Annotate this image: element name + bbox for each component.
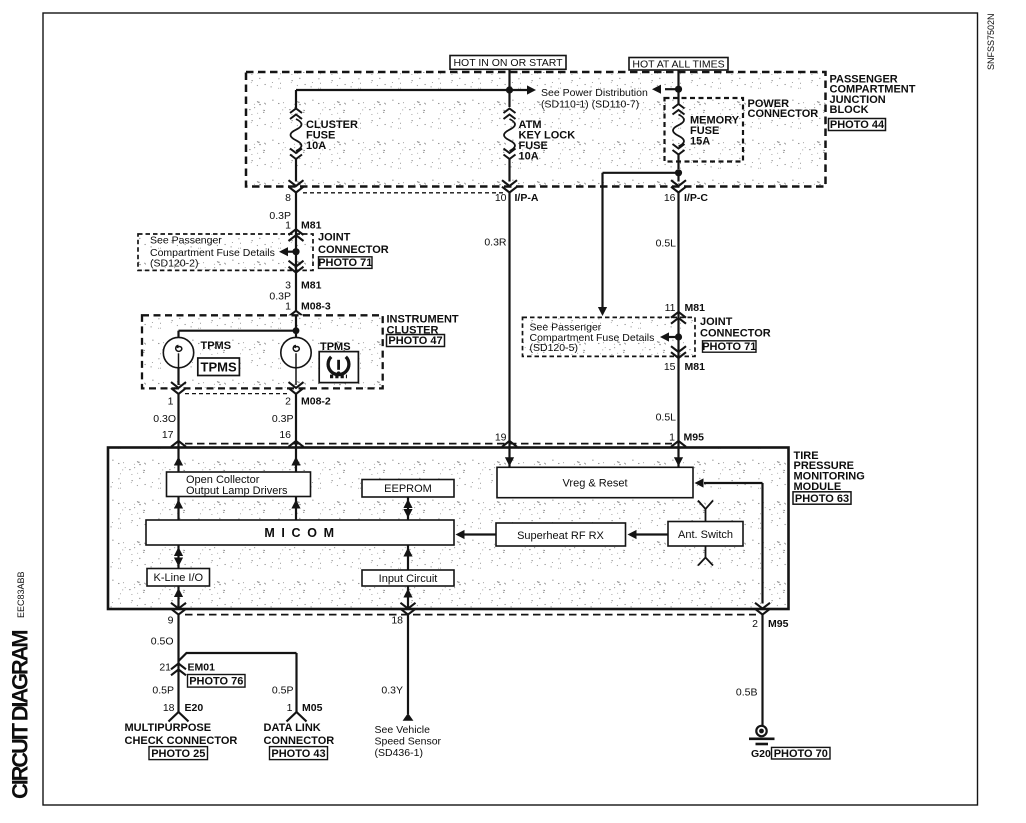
svg-text:0.3R: 0.3R (484, 237, 507, 249)
pin 16 I/P-C (671, 180, 686, 192)
svg-text:Speed Sensor: Speed Sensor (375, 736, 442, 748)
wire Superheat to MICOM (464, 533, 496, 535)
block Input Circuit (362, 570, 454, 586)
wire ground feed to Vreg (704, 482, 763, 484)
svg-text:16: 16 (279, 429, 291, 441)
wire MICOM-K-Line (bidirectional) (177, 545, 179, 569)
wire 0.5O (pin 9 to EM01) (177, 615, 179, 712)
wire 0.3P (to pin 16) (295, 394, 297, 447)
svg-text:M81: M81 (685, 302, 706, 314)
wire pin1 to Vreg (677, 448, 679, 467)
svg-text:I/P-A: I/P-A (515, 192, 539, 204)
node power-distribution junction (right) (675, 86, 682, 93)
passenger compartment junction block (dashed box) (246, 72, 826, 187)
wire lamp drivers to MICOM (left) (177, 497, 179, 521)
ground G20 (756, 726, 766, 736)
svg-text:PHOTO 70: PHOTO 70 (774, 748, 828, 760)
wire pin17 to lamp drivers (177, 448, 179, 472)
svg-text:1: 1 (669, 432, 675, 444)
label PHOTO 70 (772, 747, 831, 759)
wire EEPROM-MICOM (bidirectional) (407, 497, 409, 520)
label PHOTO 76 (188, 675, 246, 688)
wire Input Circuit to MICOM (407, 545, 409, 570)
svg-text:HOT IN ON OR START: HOT IN ON OR START (453, 57, 563, 69)
svg-text:PHOTO 47: PHOTO 47 (388, 335, 442, 347)
pin 1 M08-2 (left) (171, 382, 186, 394)
wire Ant. Switch to Superheat (636, 533, 668, 535)
svg-text:1: 1 (287, 702, 293, 714)
svg-text:PHOTO 76: PHOTO 76 (189, 676, 243, 688)
wire to CLUSTER FUSE (296, 89, 510, 91)
svg-text:MULTIPURPOSE: MULTIPURPOSE (125, 722, 212, 734)
svg-text:2: 2 (752, 618, 758, 630)
svg-text:0.5P: 0.5P (152, 685, 174, 697)
svg-text:0.5O: 0.5O (151, 636, 174, 648)
svg-text:See Vehicle: See Vehicle (375, 724, 431, 736)
svg-text:18: 18 (391, 615, 403, 627)
label HOT IN ON OR START (450, 56, 566, 70)
svg-text:CONNECTOR: CONNECTOR (264, 735, 335, 747)
svg-text:EM01: EM01 (188, 662, 216, 674)
svg-text:BLOCK: BLOCK (830, 104, 869, 116)
svg-text:EEC83ABB: EEC83ABB (16, 571, 26, 618)
lamp TPMS (right indicator) (281, 337, 311, 367)
pin 2 M95 chevron (755, 603, 770, 615)
svg-text:0.3P: 0.3P (272, 413, 294, 425)
wire pin16 to lamp drivers (295, 448, 297, 472)
node M81 joint (SD120-5) (675, 333, 682, 340)
svg-text:21: 21 (159, 662, 171, 674)
node power-distribution junction (left) (506, 86, 513, 93)
svg-text:EEPROM: EEPROM (384, 483, 432, 495)
fuse MEMORY FUSE 15A (673, 104, 685, 115)
svg-text:10: 10 (495, 192, 507, 204)
wire pin 18 to Input Circuit (407, 586, 409, 608)
wire pin19 to Vreg (508, 448, 510, 467)
svg-text:M95: M95 (684, 432, 705, 444)
svg-text:K-Line I/O: K-Line I/O (154, 572, 204, 584)
wire 0.3O (177, 394, 179, 447)
svg-text:(SD120-5): (SD120-5) (530, 342, 578, 354)
antenna (lower) (698, 546, 713, 566)
svg-text:JOINT: JOINT (318, 231, 351, 243)
svg-text:Output Lamp Drivers: Output Lamp Drivers (186, 485, 288, 497)
block MICOM (146, 520, 454, 545)
svg-text:TPMS: TPMS (201, 359, 237, 374)
wire inside cluster (295, 316, 297, 338)
joint connector M81 box (SD120-2) (138, 234, 313, 270)
wire from HOT IN ON OR START (508, 69, 510, 107)
pin 18 chevron (401, 603, 416, 615)
svg-text:2: 2 (285, 396, 291, 408)
svg-text:1: 1 (168, 396, 174, 408)
svg-text:10A: 10A (306, 140, 326, 152)
svg-text:17: 17 (162, 429, 174, 441)
svg-text:9: 9 (168, 615, 174, 627)
svg-text:0.3O: 0.3O (153, 413, 176, 425)
svg-text:16: 16 (664, 192, 676, 204)
power connector (dashed box) (665, 98, 744, 162)
svg-text:PHOTO 44: PHOTO 44 (830, 119, 885, 131)
svg-text:M05: M05 (302, 702, 323, 714)
svg-text:JOINT: JOINT (700, 316, 733, 328)
block Vreg &amp; Reset (497, 467, 693, 497)
wire from HOT AT ALL TIMES (677, 70, 679, 104)
svg-text:PHOTO 71: PHOTO 71 (318, 257, 372, 269)
node memory fuse output junction (675, 169, 682, 176)
svg-text:Input Circuit: Input Circuit (379, 573, 438, 585)
svg-text:18: 18 (163, 702, 175, 714)
svg-text:19: 19 (495, 432, 507, 444)
svg-text:11: 11 (665, 302, 676, 314)
svg-text:See Passenger: See Passenger (150, 235, 222, 247)
label HOT AT ALL TIMES (629, 58, 728, 71)
svg-text:PHOTO 71: PHOTO 71 (702, 341, 756, 353)
svg-text:0.5L: 0.5L (656, 238, 677, 250)
instrument cluster (dashed box) (142, 315, 383, 388)
block EEPROM (362, 480, 454, 498)
pin 19 chevron (502, 441, 517, 453)
svg-text:0.3Y: 0.3Y (381, 685, 403, 697)
svg-text:M81: M81 (301, 220, 322, 232)
svg-text:10A: 10A (519, 151, 539, 163)
pin 17 chevron (171, 441, 186, 453)
wire lamp drivers to MICOM (right) (295, 497, 297, 521)
svg-text:0.5B: 0.5B (736, 687, 758, 699)
block Open Collector Output Lamp Drivers (167, 472, 311, 497)
svg-text:M08-2: M08-2 (301, 396, 331, 408)
antenna (upper) (698, 501, 713, 522)
fuse ATM KEY LOCK FUSE 10A (504, 109, 516, 120)
wire branch to joint connector SD120-5 (603, 172, 679, 174)
joint connector M81 box (SD120-5) (523, 317, 696, 356)
svg-text:CHECK CONNECTOR: CHECK CONNECTOR (125, 735, 238, 747)
tire pressure monitoring module (box) (108, 448, 789, 610)
svg-text:(SD120-2): (SD120-2) (150, 258, 198, 270)
pin 9 chevron (171, 603, 186, 615)
module connector dashed line (top) (185, 443, 672, 445)
fuse CLUSTER FUSE 10A (290, 109, 302, 120)
svg-text:PHOTO 63: PHOTO 63 (795, 493, 849, 505)
svg-text:M08-3: M08-3 (301, 301, 331, 313)
pin 15 M81 (671, 346, 686, 358)
wire 0.3Y (pin 18 to vehicle speed sensor) (407, 615, 409, 714)
block Ant. Switch (668, 522, 743, 547)
svg-text:DATA LINK: DATA LINK (264, 722, 321, 734)
pin 3 M81 (289, 261, 304, 273)
connector row dashed line I/P (303, 192, 503, 194)
label box TPMS (198, 358, 240, 376)
icon TPMS warning lamp (319, 352, 358, 383)
connector EM01 (171, 664, 186, 676)
svg-text:M95: M95 (768, 618, 789, 630)
svg-text:G20: G20 (751, 748, 771, 760)
svg-text:SNFSS7502N: SNFSS7502N (986, 13, 996, 70)
svg-text:CIRCUIT DIAGRAM: CIRCUIT DIAGRAM (8, 631, 33, 799)
wire 0.3R (pin 10 to module pin 19) (508, 193, 510, 447)
svg-text:15A: 15A (690, 136, 710, 148)
svg-text:15: 15 (664, 361, 676, 373)
block Superheat RF RX (496, 523, 626, 546)
svg-text:M81: M81 (685, 361, 706, 373)
svg-text:(SD436-1): (SD436-1) (375, 747, 423, 759)
svg-text:8: 8 (285, 192, 291, 204)
svg-text:I/P-C: I/P-C (684, 192, 708, 204)
svg-text:CONNECTOR: CONNECTOR (748, 108, 819, 120)
svg-text:PHOTO 43: PHOTO 43 (271, 748, 325, 760)
node M81 joint (SD120-2) (292, 248, 299, 255)
svg-text:E20: E20 (185, 702, 204, 714)
svg-text:See Power Distribution: See Power Distribution (541, 87, 648, 99)
svg-text:1: 1 (285, 220, 291, 232)
svg-text:Ant. Switch: Ant. Switch (678, 529, 733, 541)
wire branch to data link connector (179, 653, 297, 712)
wire 0.3P (pin 8 to M81) (295, 193, 297, 311)
pin 16 chevron (289, 441, 304, 453)
svg-text:0.5P: 0.5P (272, 685, 294, 697)
pin 8 (junction block) (289, 180, 304, 192)
lamp TPMS (left indicator) (163, 337, 193, 367)
svg-text:0.5L: 0.5L (656, 412, 677, 424)
svg-text:PHOTO 25: PHOTO 25 (151, 748, 205, 760)
svg-text:CONNECTOR: CONNECTOR (318, 244, 389, 256)
wire 0.5L (pin 16 to M81) (677, 193, 679, 447)
svg-text:M81: M81 (301, 280, 322, 292)
svg-text:Superheat RF RX: Superheat RF RX (517, 530, 604, 542)
svg-text:Vreg & Reset: Vreg & Reset (562, 478, 627, 490)
pin 1 chevron (671, 441, 686, 453)
svg-text:(SD110-1) (SD110-7): (SD110-1) (SD110-7) (541, 98, 639, 110)
wire 0.5B (pin 2 to ground) (761, 615, 763, 726)
module connector dashed line (bottom) (185, 614, 756, 616)
svg-text:HOT AT ALL TIMES: HOT AT ALL TIMES (632, 58, 724, 70)
svg-text:TPMS: TPMS (201, 340, 232, 352)
label PHOTO 44 (829, 119, 886, 131)
pin 2 M08-2 (right) (289, 382, 304, 394)
connector row dashed line M08-2 (185, 393, 289, 395)
wire K-Line to pin 9 (177, 586, 179, 608)
svg-text:M I C O M: M I C O M (264, 526, 335, 540)
pin 10 I/P-A (502, 180, 517, 192)
block K-Line I/O (147, 569, 210, 587)
svg-text:CONNECTOR: CONNECTOR (700, 327, 771, 339)
svg-text:1: 1 (285, 301, 291, 313)
